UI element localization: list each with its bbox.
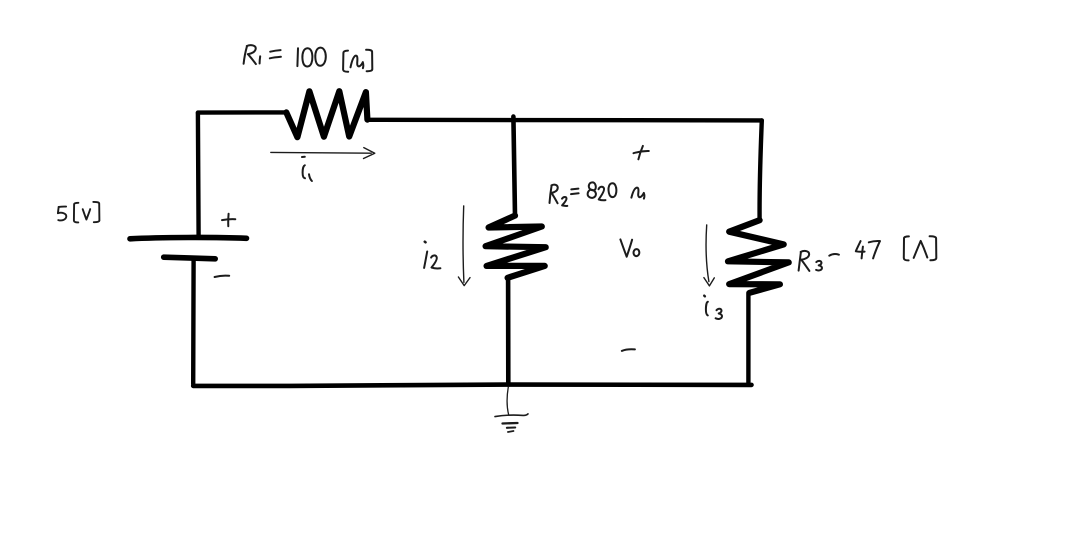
wire: middle branch upper (top junction to R2) [513, 117, 515, 216]
resistor R1 zigzag [286, 91, 367, 137]
label: V0 minus sign [622, 349, 635, 351]
label: V0 [620, 239, 639, 256]
label: i3 [704, 296, 722, 319]
label: R3 = 47 [Ω] [799, 236, 937, 271]
wire: left branch vertical lower (battery - to bottom-left corner) [191, 260, 196, 385]
label: R2 = 820 Ω [550, 182, 645, 206]
resistor R2 zigzag [486, 216, 546, 278]
battery V1 top plate (+) [130, 237, 247, 238]
wire: right branch lower (R3 to bottom-right corner) [746, 293, 750, 383]
wire: bottom segment [193, 385, 751, 386]
label: i1 [302, 157, 312, 181]
label: i2 [424, 242, 440, 269]
battery V1 bottom plate (-) [164, 257, 216, 259]
wire: left branch vertical upper (battery + to top-left corner) [196, 113, 201, 236]
wire: right branch upper (top-right corner to R3) [760, 121, 762, 221]
wire: top-left segment from corner to R1 [198, 110, 286, 115]
battery minus sign [215, 276, 230, 277]
current arrow i3 [704, 225, 714, 286]
wire: top segment from R1 to top-right corner [367, 118, 761, 123]
label: R1 = 100 [Ω] [244, 45, 373, 72]
current arrow i1 [271, 148, 375, 159]
ground [495, 387, 528, 432]
resistor R3 zigzag [728, 220, 789, 293]
current arrow i2 [458, 206, 470, 286]
wire: middle branch lower (R2 to bottom junction) [506, 278, 511, 385]
label: 5 [V] [58, 202, 100, 223]
battery plus sign [222, 214, 235, 227]
label: V0 plus sign [634, 146, 649, 159]
